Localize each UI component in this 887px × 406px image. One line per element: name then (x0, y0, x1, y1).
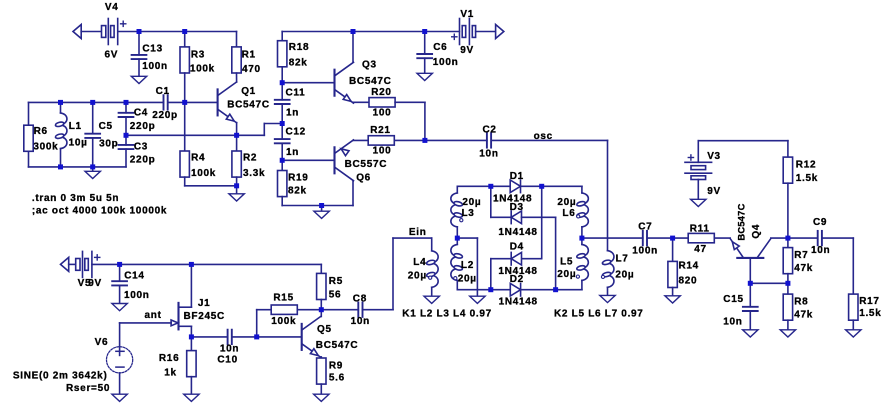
node junction R18/C11/Q3 base (280, 80, 285, 85)
wire R18 bottom to C11 (281, 67, 283, 100)
svg-text:Q6: Q6 (356, 173, 371, 184)
svg-text:R3: R3 (191, 50, 205, 61)
svg-text:R8: R8 (794, 297, 808, 308)
inductor L4 20µ (408, 251, 438, 287)
svg-text:20µ: 20µ (458, 274, 477, 285)
svg-text:L1: L1 (69, 121, 82, 132)
wire right tap to C7 (582, 237, 643, 239)
wire D4 cathode lead (491, 258, 511, 260)
node left center tap (455, 236, 460, 241)
inductor L5 20µ (557, 244, 588, 280)
wire R2 bottom (236, 177, 238, 186)
resistor R9 5.6 (317, 358, 345, 384)
svg-text:82k: 82k (288, 185, 307, 196)
wire buffer ground stub (321, 206, 323, 212)
svg-text:SINE(0 2m 3642k): SINE(0 2m 3642k) (13, 370, 108, 381)
wire C9 to R17 corner (822, 237, 853, 239)
capacitor C5 30p (85, 121, 118, 150)
svg-text:C4: C4 (134, 108, 148, 119)
capacitor C12 1n (275, 126, 306, 158)
svg-text:BC547C: BC547C (349, 76, 392, 87)
wire L1 bottom lead (60, 149, 62, 167)
value 1k of R16 (164, 367, 177, 378)
wire mixer top right (521, 185, 582, 187)
wire Q1 emitter to R2 (236, 135, 238, 151)
svg-text:BF245C: BF245C (184, 311, 225, 322)
wire L1 top lead (60, 102, 62, 113)
wire C3 top lead (125, 135, 127, 145)
wire rail down to R3 (184, 32, 186, 47)
svg-text:20µ: 20µ (557, 197, 576, 208)
svg-text:100: 100 (373, 145, 392, 156)
svg-text:R19: R19 (288, 172, 308, 183)
label R16 (159, 353, 179, 364)
node BL ring junction (488, 287, 493, 292)
wire L7 to ground (607, 287, 609, 295)
svg-text:R5: R5 (329, 276, 343, 287)
node junction R5/R15/C8/Q5 collector (319, 307, 324, 312)
wire base node to R4 (184, 102, 186, 151)
wire V3 to ground (697, 180, 699, 200)
wire R14 to ground (672, 288, 674, 296)
wire base node to divider (750, 282, 788, 284)
wire to Q6 base (282, 159, 334, 161)
svg-text:100n: 100n (142, 61, 168, 72)
wire L6/L5 center tap (581, 227, 583, 245)
svg-text:Q4: Q4 (751, 224, 762, 239)
wire feedback row to Q1 emitter (126, 134, 264, 136)
svg-text:R1: R1 (242, 50, 256, 61)
wire D3 cathode lead (491, 216, 511, 218)
resistor R4 100k (180, 151, 216, 179)
svg-text:R7: R7 (794, 250, 808, 261)
node junction rail/C14 (117, 262, 122, 267)
node junction bottom/L1 (58, 164, 63, 169)
node junction tank/L1 (58, 100, 63, 105)
value Rser of V6 (66, 383, 110, 394)
wire port to V4 (81, 31, 101, 33)
wire C6 to ground (424, 58, 426, 73)
wire R21 to osc node (394, 139, 425, 141)
wire J1 drain vertical (190, 264, 192, 307)
wire osc down to L7 (607, 140, 609, 250)
wire R16 top lead (190, 337, 192, 351)
wire Q5 collector up (320, 310, 322, 317)
wire V1 to port (476, 31, 496, 33)
transistor Q3 BC547C (335, 59, 392, 103)
resistor R18 82k (278, 41, 310, 69)
net label ant (145, 310, 162, 321)
svg-text:100k: 100k (271, 316, 296, 327)
node junction R7/R8 (785, 281, 790, 286)
node junction bottom/ground (90, 164, 95, 169)
wire R7 top lead (787, 238, 789, 248)
wire V5 to input rail (92, 263, 321, 265)
capacitor C8 10n (351, 294, 370, 328)
node right center tap (579, 236, 584, 241)
ground below R16 (184, 394, 199, 401)
wire TL down to D3 (490, 186, 492, 217)
svg-text:ant: ant (145, 310, 162, 321)
capacitor C11 1n (275, 87, 306, 118)
resistor R3 100k (180, 47, 215, 75)
wire C10 to Q5 base node (232, 336, 257, 338)
wire R19 bottom (281, 197, 283, 206)
svg-text:R11: R11 (690, 224, 710, 235)
resistor R16 1k (187, 351, 196, 377)
svg-text:R21: R21 (370, 125, 390, 136)
svg-text:D3: D3 (510, 202, 524, 213)
voltage source V6 SINE (95, 337, 133, 373)
wire tank top rail (29, 101, 164, 103)
svg-text:.tran 0 3m 5u 5n: .tran 0 3m 5u 5n (32, 193, 119, 204)
svg-text:C2: C2 (483, 125, 497, 136)
wire L4 to ground (431, 287, 433, 296)
wire C5 top lead (92, 102, 94, 133)
svg-text:220p: 220p (130, 121, 156, 132)
resistor R14 820 (668, 261, 699, 288)
svg-text:C14: C14 (124, 270, 144, 281)
wire L4 top lead (431, 238, 433, 251)
label 9V of V5 (88, 278, 102, 289)
wire C4 top lead (125, 102, 127, 112)
wire tank ground stub (92, 167, 94, 171)
wire rail down to R18 (281, 32, 283, 41)
svg-text:V6: V6 (95, 337, 109, 348)
svg-text:L4: L4 (413, 257, 426, 268)
wire Q4 collector to R12 node (771, 237, 788, 239)
wire R7 bottom lead (787, 274, 789, 284)
ground below R17 (846, 330, 861, 337)
directive K1 coupling (402, 309, 492, 320)
node junction C12/R19/Q6 base (280, 158, 285, 163)
svg-text:R16: R16 (159, 353, 179, 364)
wire V3 rail (698, 140, 788, 142)
svg-text:C10: C10 (217, 355, 237, 366)
battery V3 9V (685, 151, 721, 197)
node junction Q1 emitter/feedback (234, 133, 239, 138)
wire Q3 emitter to R20 (353, 101, 369, 103)
svg-text:10n: 10n (479, 149, 498, 160)
wire R12 to Q4 collector (787, 183, 789, 238)
wire V6 to ant node (119, 323, 121, 356)
wire R16 to ground (190, 377, 192, 395)
wire C15 to ground (749, 311, 751, 330)
svg-text:C3: C3 (134, 142, 148, 153)
svg-text:82k: 82k (289, 58, 308, 69)
wire base node to Q5 (257, 336, 302, 338)
wire feedback to C11/C12 node (264, 123, 282, 125)
svg-text:R14: R14 (679, 261, 699, 272)
wire R8 top lead (787, 283, 789, 294)
svg-text:470: 470 (242, 64, 261, 75)
resistor R6 300k (24, 125, 59, 152)
wire C4 bottom to mid node (125, 117, 127, 135)
ground below R19/Q6 (314, 211, 329, 218)
svg-text:1n: 1n (286, 107, 299, 118)
svg-text:C6: C6 (433, 42, 447, 53)
wire R3 bottom to base node (184, 73, 186, 102)
node junction C10/R15/Q5 base (254, 334, 259, 339)
resistor R21 100 (368, 125, 394, 157)
wire L3 top corner (456, 186, 458, 193)
svg-text:20µ: 20µ (557, 269, 576, 280)
ground below C13 (131, 76, 146, 83)
svg-text:Ein: Ein (409, 227, 427, 238)
node junction buffer ground (319, 203, 324, 208)
wire C5 bottom lead (92, 138, 94, 167)
wire L3/L2 center tap (456, 227, 458, 245)
svg-text:9V: 9V (460, 45, 474, 56)
svg-text:L7: L7 (616, 253, 629, 264)
svg-text:BC547C: BC547C (227, 100, 270, 111)
capacitor C14 100n (112, 270, 149, 301)
wire R1 bottom to Q1 collector (236, 73, 238, 82)
svg-text:C8: C8 (353, 294, 367, 305)
svg-text:9V: 9V (707, 186, 721, 197)
svg-text:100n: 100n (124, 290, 150, 301)
svg-text:100k: 100k (191, 168, 216, 179)
wire antenna to gate (120, 322, 172, 324)
ground below C15 (743, 330, 758, 337)
node junction C11/C12 (280, 121, 285, 126)
wire J1 source down (190, 326, 192, 337)
wire mixer bottom left (457, 289, 510, 291)
ground below C14 (112, 304, 127, 311)
capacitor C1 220p (152, 86, 178, 121)
resistor R20 100 (369, 87, 395, 118)
wire L2 bottom corner (456, 280, 458, 289)
capacitor C7 100n (632, 221, 658, 256)
wire L6 top corner (581, 186, 583, 193)
diode D3 1N4148 (498, 202, 537, 238)
svg-text:C5: C5 (99, 121, 113, 132)
node junction Q4 base/C15 (748, 281, 753, 286)
svg-text:D4: D4 (510, 241, 524, 252)
svg-text:1.5k: 1.5k (796, 173, 818, 184)
resistor R1 470 (232, 47, 261, 75)
wire rail down to R12 (787, 141, 789, 157)
svg-text:C1: C1 (156, 86, 170, 97)
battery V4 6V (102, 2, 126, 60)
wire D4 anode lead (522, 258, 542, 260)
node junction rail/C6/V1 (422, 29, 427, 34)
wire R11 to Q4 emitter (714, 237, 730, 239)
svg-text:R15: R15 (273, 292, 293, 303)
node junction rail/R3 (182, 29, 187, 34)
net label Ein (409, 227, 427, 238)
node junction V4/C13 (137, 29, 142, 34)
svg-text:R2: R2 (243, 152, 257, 163)
wire R15 left lead (257, 309, 272, 311)
wire down to R17 (852, 238, 854, 294)
ground below left center tap (470, 296, 485, 303)
wire mixer top left (457, 185, 510, 187)
value 10n of C10 (220, 343, 239, 354)
resistor R15 100k (271, 292, 297, 327)
svg-text:100k: 100k (190, 64, 215, 75)
svg-text:10n: 10n (723, 316, 742, 327)
transistor J1 BF245C (n-JFET) (171, 298, 225, 330)
resistor R2 3.3k (232, 151, 265, 179)
svg-text:1.5k: 1.5k (859, 308, 881, 319)
capacitor C13 100n (132, 43, 168, 71)
wire osc net (491, 139, 607, 141)
wire V4 to supply rail (118, 31, 237, 33)
node junction R20/R21/C2 (422, 138, 427, 143)
wire C15 top lead (749, 283, 751, 307)
ground below L7 (600, 295, 615, 302)
svg-text:20µ: 20µ (462, 197, 481, 208)
svg-text:Q3: Q3 (362, 59, 377, 70)
svg-text:K2 L5 L6 L7 0.97: K2 L5 L6 L7 0.97 (554, 308, 644, 319)
svg-text:BC557C: BC557C (345, 159, 388, 170)
wire C8 to Ein riser (363, 309, 394, 311)
wire C13 to ground (138, 59, 140, 76)
wire C14 top lead (119, 264, 121, 281)
svg-text:20µ: 20µ (615, 269, 634, 280)
inductor L6 20µ (557, 193, 588, 227)
svg-text:3.3k: 3.3k (243, 168, 265, 179)
svg-text:1N4148: 1N4148 (498, 266, 537, 277)
wire R17 to ground (852, 320, 854, 330)
transistor Q4 BC547C (rotated) (730, 203, 771, 257)
svg-text:6V: 6V (105, 49, 119, 60)
wire TR down to D4 (541, 186, 543, 258)
svg-text:R17: R17 (859, 296, 879, 307)
svg-text:K1 L2 L3 L4 0.97: K1 L2 L3 L4 0.97 (402, 309, 492, 320)
wire C7 to R11 node (647, 237, 688, 239)
value SINE of V6 (13, 370, 108, 381)
wire R14 top lead (672, 238, 674, 261)
svg-text:1n: 1n (286, 147, 299, 158)
svg-text:R9: R9 (329, 360, 343, 371)
ground below V3 (691, 199, 706, 206)
diode D2 1N4148 (499, 274, 538, 308)
svg-text:47k: 47k (794, 263, 813, 274)
resistor R7 47k (783, 248, 813, 274)
battery V5 9V (76, 251, 100, 289)
node junction R2/R4 ground (234, 183, 239, 188)
svg-text:9V: 9V (88, 278, 102, 289)
inductor L3 20µ (451, 193, 482, 227)
wire R15 right lead (297, 309, 321, 311)
wire R9 to ground (320, 384, 322, 394)
wire R15 riser (256, 310, 258, 337)
svg-text:C7: C7 (638, 221, 652, 232)
wire V3 top lead (697, 141, 699, 163)
svg-text:820: 820 (679, 276, 698, 287)
svg-text:V4: V4 (105, 2, 119, 13)
wire Q6 emitter to R21 (353, 139, 368, 141)
wire feedback riser (263, 124, 265, 136)
wire ground stub R2/R4 (236, 186, 238, 194)
inductor L7 20µ (601, 251, 634, 288)
capacitor C10 10n (228, 330, 232, 344)
svg-text:D1: D1 (510, 171, 524, 182)
svg-text:osc: osc (534, 131, 553, 142)
directive .tran (32, 193, 119, 204)
svg-text:R20: R20 (371, 87, 391, 98)
wire Q1 emitter down (236, 123, 238, 136)
wire L5 bottom corner (581, 280, 583, 289)
svg-text:J1: J1 (198, 298, 211, 309)
wire osc row to C2 (425, 139, 487, 141)
svg-text:10n: 10n (351, 316, 370, 327)
wire R8 to ground (787, 320, 789, 330)
ground below R9 (314, 394, 329, 401)
wire C13 top lead (138, 32, 140, 55)
capacitor C4 220p (119, 108, 156, 132)
wire mixer bottom right (521, 289, 582, 291)
transistor Q1 BC547C (218, 82, 270, 123)
node junction J1 source/C10/R16 (189, 334, 194, 339)
transistor Q6 BC557C (335, 140, 388, 184)
svg-text:BC547C: BC547C (316, 340, 359, 351)
svg-text:R6: R6 (34, 126, 48, 137)
svg-text:56: 56 (329, 289, 342, 300)
svg-text:V1: V1 (460, 9, 474, 20)
transistor Q5 BC547C (302, 317, 359, 358)
wire V1 supply rail (282, 31, 459, 33)
node junction C4/C3 divider (124, 133, 129, 138)
wire source node to C10 (191, 336, 227, 338)
svg-text:220p: 220p (152, 110, 178, 121)
svg-text:10n: 10n (811, 245, 830, 256)
wire port to V5 (69, 263, 76, 265)
wire D3 to BR (555, 217, 557, 289)
wire rail down to R1 (236, 32, 238, 47)
wire left tap to ground leg (457, 237, 477, 239)
svg-text:L5: L5 (560, 257, 573, 268)
svg-text:100: 100 (373, 107, 392, 118)
capacitor C9 10n (811, 217, 830, 256)
svg-text:30p: 30p (99, 139, 118, 150)
wire C6 top lead (424, 32, 426, 55)
capacitor C15 10n (723, 294, 758, 327)
wire Q3 collector to rail (352, 32, 354, 63)
svg-text:C15: C15 (723, 294, 743, 305)
wire C3 bottom lead (125, 149, 127, 167)
wire R6 top lead (28, 102, 30, 125)
capacitor C6 100n (417, 42, 458, 68)
node junction rail/J1 drain (189, 262, 194, 267)
wire R6 bottom lead (28, 151, 30, 167)
svg-text:300k: 300k (33, 141, 58, 152)
svg-text:C11: C11 (286, 87, 306, 98)
node junction C7/R11/R14 (670, 236, 675, 241)
resistor R11 47 (688, 224, 714, 256)
wire Q4 base down (749, 258, 751, 283)
net label osc (534, 131, 553, 142)
port/off-page connector at V1 negative terminal (496, 25, 504, 39)
wire rail down to R5 (320, 264, 322, 273)
inductor L2 20µ (451, 244, 477, 284)
resistor R5 56 (317, 273, 343, 300)
directive K2 coupling (554, 308, 644, 319)
capacitor C3 220p (119, 142, 156, 166)
svg-text:10µ: 10µ (69, 138, 88, 149)
svg-text:5.6: 5.6 (329, 373, 345, 384)
wire Q6 collector down (352, 181, 354, 206)
ground below C6 (417, 73, 432, 80)
diode D4 1N4148 (498, 241, 537, 277)
wire Ein riser (392, 238, 394, 310)
svg-text:R18: R18 (289, 42, 309, 53)
svg-text:20µ: 20µ (408, 270, 427, 281)
svg-text:V3: V3 (707, 151, 721, 162)
ground below L4 (424, 296, 439, 303)
